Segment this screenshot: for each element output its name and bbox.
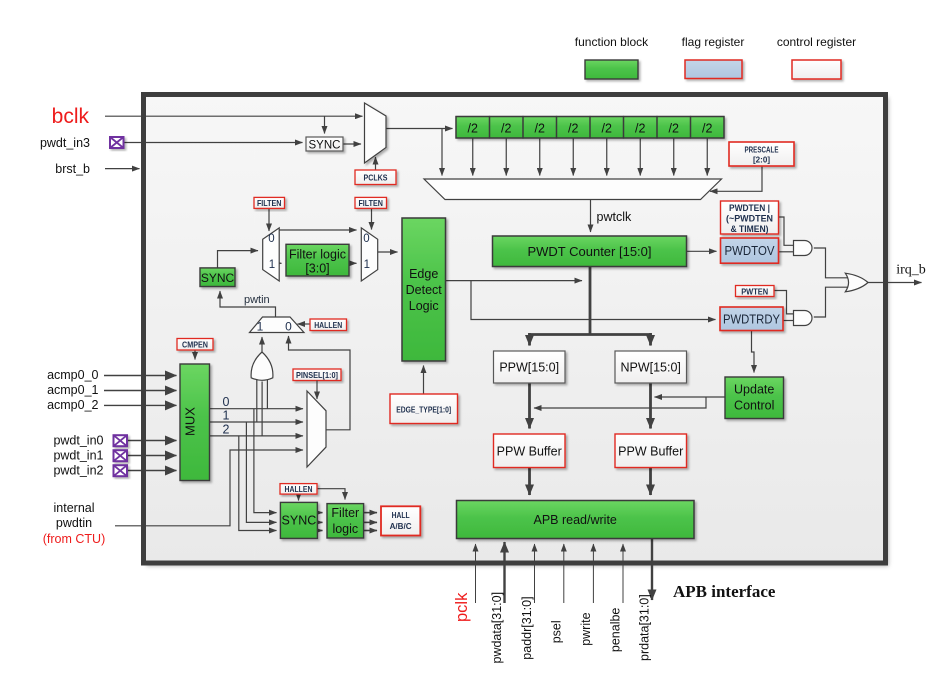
svg-text:acmp0_0: acmp0_0 <box>47 368 98 382</box>
svg-text:0: 0 <box>363 233 369 245</box>
svg-text:NPW[15:0]: NPW[15:0] <box>620 360 680 374</box>
svg-text:paddr[31:0]: paddr[31:0] <box>520 596 534 659</box>
svg-text:acmp0_1: acmp0_1 <box>47 383 98 397</box>
svg-text:Logic: Logic <box>409 299 439 313</box>
svg-text:1: 1 <box>257 320 264 334</box>
svg-text:Filter: Filter <box>331 506 359 520</box>
svg-text:FILTEN: FILTEN <box>257 198 282 208</box>
svg-text:SYNC: SYNC <box>282 514 317 528</box>
svg-text:1: 1 <box>269 259 275 271</box>
svg-text:pwtclk: pwtclk <box>597 210 632 224</box>
svg-text:Control: Control <box>734 399 774 413</box>
svg-text:PINSEL[1:0]: PINSEL[1:0] <box>296 370 338 380</box>
svg-text:/2: /2 <box>501 121 511 135</box>
svg-text:CMPEN: CMPEN <box>182 339 208 349</box>
svg-text:/2: /2 <box>602 121 612 135</box>
svg-text:Edge: Edge <box>409 267 438 281</box>
svg-text:APB interface: APB interface <box>673 582 776 601</box>
svg-text:PCLKS: PCLKS <box>364 173 388 183</box>
svg-text:A/B/C: A/B/C <box>390 521 412 531</box>
svg-text:/2: /2 <box>669 121 679 135</box>
svg-text:logic: logic <box>332 522 358 536</box>
svg-text:pwtin: pwtin <box>244 294 270 306</box>
svg-text:PWTEN: PWTEN <box>741 286 768 296</box>
svg-text:PPW Buffer: PPW Buffer <box>618 444 683 458</box>
svg-text:/2: /2 <box>568 121 578 135</box>
svg-text:PWDTOV: PWDTOV <box>725 244 776 258</box>
svg-text:PWDTEN |: PWDTEN | <box>729 203 770 213</box>
svg-text:0: 0 <box>223 395 230 409</box>
svg-text:[3:0]: [3:0] <box>305 262 329 276</box>
svg-text:pwdt_in1: pwdt_in1 <box>53 449 103 463</box>
svg-text:pwdt_in3: pwdt_in3 <box>40 136 90 150</box>
svg-text:HALL: HALL <box>392 510 410 520</box>
svg-text:acmp0_2: acmp0_2 <box>47 398 98 412</box>
svg-text:flag register: flag register <box>682 35 745 49</box>
svg-text:pwdt_in0: pwdt_in0 <box>53 434 103 448</box>
svg-text:Update: Update <box>734 383 774 397</box>
svg-text:pclk: pclk <box>453 592 471 622</box>
svg-text:/2: /2 <box>468 121 478 135</box>
svg-text:PPW Buffer: PPW Buffer <box>497 444 562 458</box>
svg-text:penalbe: penalbe <box>609 608 623 653</box>
svg-text:(~PWDTEN: (~PWDTEN <box>726 214 773 224</box>
svg-text:PPW[15:0]: PPW[15:0] <box>499 360 559 374</box>
svg-text:2: 2 <box>223 422 230 436</box>
svg-text:/2: /2 <box>635 121 645 135</box>
svg-text:PRESCALE: PRESCALE <box>745 144 779 154</box>
svg-text:1: 1 <box>223 408 230 422</box>
svg-text:brst_b: brst_b <box>55 162 90 176</box>
svg-text:APB read/write: APB read/write <box>534 513 617 527</box>
svg-text:Detect: Detect <box>406 283 443 297</box>
svg-text:irq_b: irq_b <box>896 263 926 278</box>
svg-text:(from CTU): (from CTU) <box>43 532 106 546</box>
svg-text:0: 0 <box>285 320 292 334</box>
svg-text:1: 1 <box>364 259 370 271</box>
svg-text:pwrite: pwrite <box>579 612 593 645</box>
svg-text:EDGE_TYPE[1:0]: EDGE_TYPE[1:0] <box>396 405 451 415</box>
svg-text:SYNC: SYNC <box>201 271 235 285</box>
svg-text:pwdt_in2: pwdt_in2 <box>53 464 103 478</box>
svg-text:FILTEN: FILTEN <box>358 198 383 208</box>
svg-text:pwdata[31:0]: pwdata[31:0] <box>490 592 504 664</box>
svg-text:/2: /2 <box>702 121 712 135</box>
svg-text:HALLEN: HALLEN <box>285 484 313 494</box>
svg-text:psel: psel <box>550 620 564 643</box>
svg-text:& TIMEN): & TIMEN) <box>731 224 769 234</box>
svg-text:function block: function block <box>575 35 649 49</box>
svg-text:prdata[31:0]: prdata[31:0] <box>638 594 652 661</box>
svg-text:MUX: MUX <box>183 407 198 436</box>
svg-text:HALLEN: HALLEN <box>314 320 342 330</box>
svg-text:bclk: bclk <box>52 105 90 128</box>
svg-text:internal: internal <box>54 501 95 515</box>
svg-text:PWDTRDY: PWDTRDY <box>723 313 781 327</box>
svg-text:0: 0 <box>268 233 274 245</box>
svg-text:[2:0]: [2:0] <box>753 154 770 164</box>
svg-text:/2: /2 <box>535 121 545 135</box>
svg-text:pwdtin: pwdtin <box>56 516 92 530</box>
svg-text:Filter logic: Filter logic <box>289 247 346 261</box>
svg-text:SYNC: SYNC <box>309 139 341 151</box>
svg-text:PWDT Counter [15:0]: PWDT Counter [15:0] <box>527 244 651 259</box>
svg-text:control register: control register <box>777 35 856 49</box>
